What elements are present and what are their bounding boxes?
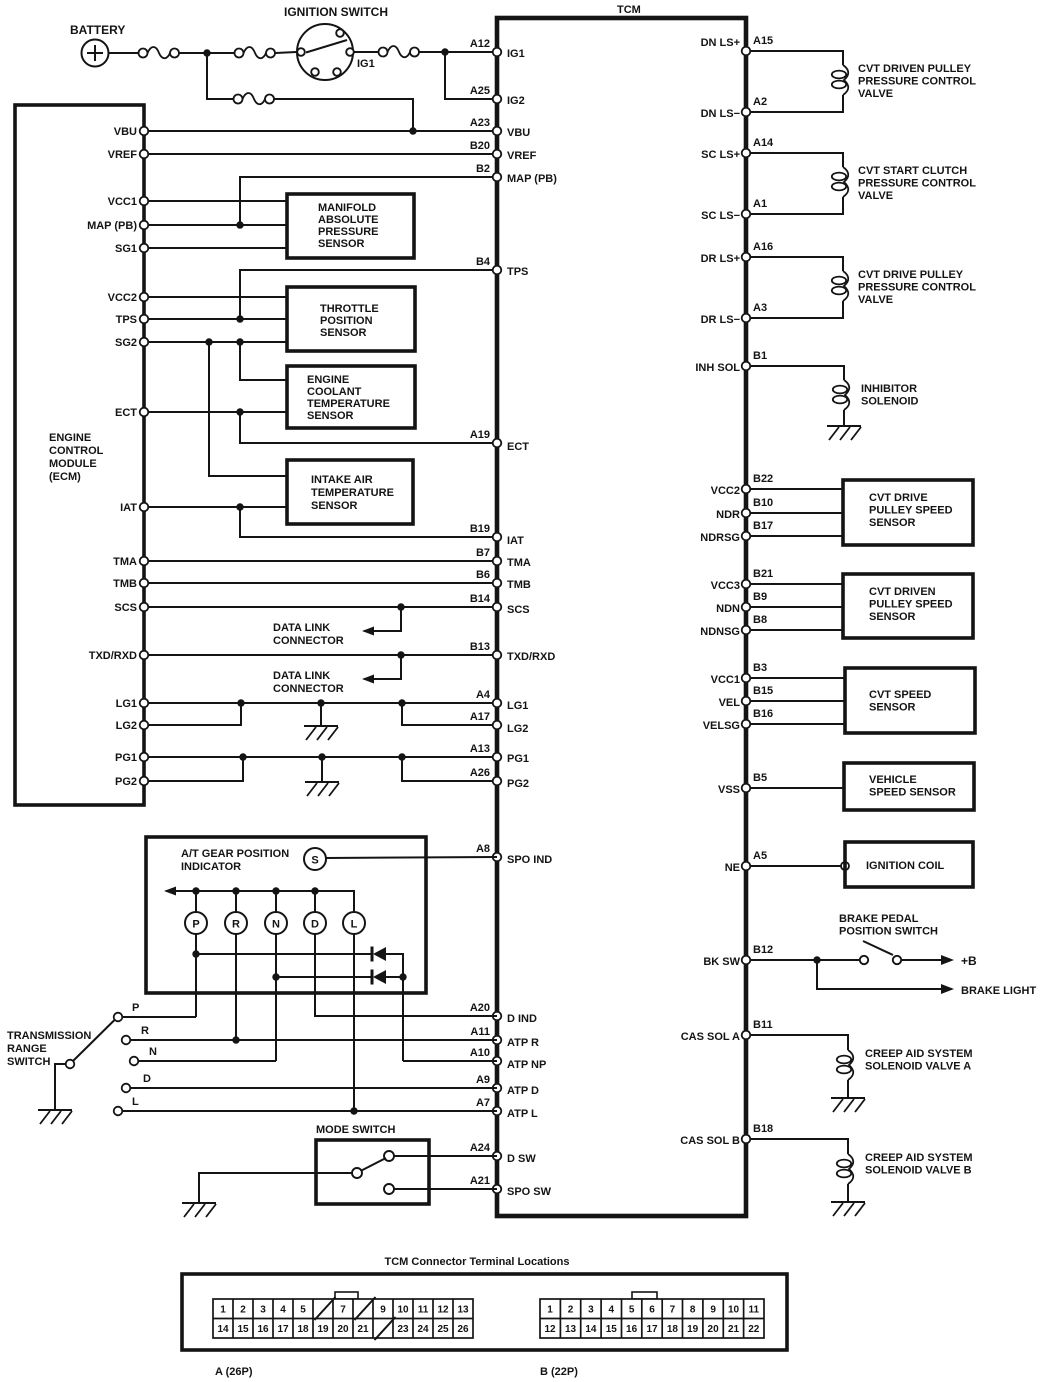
diode row 1 wire — [196, 954, 403, 1061]
wire LG1 ECM to TCM — [149, 702, 498, 704]
node bus P — [192, 887, 199, 894]
battery — [70, 23, 125, 67]
svg-text:MODE SWITCH: MODE SWITCH — [316, 1124, 395, 1136]
svg-text:B7: B7 — [476, 547, 490, 559]
ignition switch — [284, 5, 388, 80]
svg-text:A/T GEAR POSITION: A/T GEAR POSITION — [181, 848, 289, 860]
ground transmission range switch — [38, 1110, 72, 1124]
connector B pin numbers — [544, 1305, 759, 1336]
fuse F4 — [234, 93, 275, 104]
wires to CVT speed sensor — [751, 678, 846, 724]
CVT drive pulley speed sensor box — [843, 480, 973, 545]
wire junction down to fuse4 — [207, 53, 234, 99]
svg-text:B10: B10 — [753, 497, 773, 509]
TCM pin A13 PG1 — [493, 753, 502, 762]
svg-text:SENSOR: SENSOR — [307, 410, 354, 422]
brake switch lever — [863, 941, 893, 955]
svg-text:A23: A23 — [470, 117, 490, 129]
ECM pin TPS — [140, 315, 149, 324]
mode switch lever — [362, 1158, 387, 1171]
svg-text:PULLEY SPEED: PULLEY SPEED — [869, 505, 953, 517]
svg-text:B16: B16 — [753, 708, 773, 720]
ground inhibitor solenoid — [827, 426, 861, 440]
TCM pin A15 DN LS+ — [742, 47, 751, 56]
ECM pin IAT — [140, 503, 149, 512]
brake switch contact 2 — [893, 956, 901, 964]
wire VBU ECM to TCM — [149, 130, 498, 132]
range switch lever — [73, 1020, 115, 1061]
svg-text:SG1: SG1 — [115, 243, 137, 255]
TCM pin B8 NDNSG — [742, 626, 751, 635]
fuse F2 — [235, 47, 276, 58]
wire D terminal to ATP D — [131, 1087, 498, 1089]
svg-text:PRESSURE: PRESSURE — [318, 226, 379, 238]
svg-text:CONTROL: CONTROL — [49, 445, 104, 457]
svg-text:11: 11 — [418, 1305, 429, 1316]
node PG1 junction a — [239, 753, 246, 760]
svg-text:13: 13 — [565, 1324, 577, 1335]
svg-text:A8: A8 — [476, 843, 490, 855]
lamp R — [225, 912, 247, 934]
svg-text:SENSOR: SENSOR — [318, 238, 365, 250]
svg-text:10: 10 — [397, 1305, 409, 1316]
svg-text:DN LS−: DN LS− — [701, 108, 740, 120]
node P diode tap — [192, 950, 199, 957]
svg-text:ENGINE: ENGINE — [307, 374, 349, 386]
svg-text:PULLEY SPEED: PULLEY SPEED — [869, 599, 953, 611]
svg-text:VEHICLE: VEHICLE — [869, 774, 917, 786]
mode switch pivot — [352, 1168, 362, 1178]
svg-text:15: 15 — [606, 1324, 618, 1335]
TCM pin B1 INH SOL — [742, 362, 751, 371]
wire and coil creep aid system solenoid valve A — [751, 1035, 849, 1050]
svg-text:CONNECTOR: CONNECTOR — [273, 635, 344, 647]
svg-text:A24: A24 — [470, 1142, 491, 1154]
ECM pin TXD/RXD — [140, 651, 149, 660]
terminal P — [114, 1013, 123, 1022]
svg-text:D SW: D SW — [507, 1153, 536, 1165]
throttle position sensor box — [287, 287, 415, 351]
wire to brake light — [817, 960, 925, 989]
ECM pin VCC1 — [140, 197, 149, 206]
wire to ignition coil — [751, 865, 843, 867]
wire D lamp to D IND — [315, 934, 497, 1016]
svg-text:CVT DRIVEN PULLEY: CVT DRIVEN PULLEY — [858, 63, 972, 75]
svg-text:CAS SOL B: CAS SOL B — [680, 1135, 740, 1147]
svg-text:CREEP AID SYSTEM: CREEP AID SYSTEM — [865, 1152, 973, 1164]
svg-text:CVT DRIVE: CVT DRIVE — [869, 492, 928, 504]
wire fuse4 to VBU line — [275, 99, 414, 131]
svg-text:+B: +B — [961, 954, 977, 968]
wire PG2 ECM branch — [149, 757, 244, 781]
svg-text:A19: A19 — [470, 429, 490, 441]
svg-text:24: 24 — [417, 1324, 429, 1335]
svg-text:VALVE: VALVE — [858, 190, 893, 202]
svg-text:B8: B8 — [753, 614, 767, 626]
svg-text:A7: A7 — [476, 1097, 490, 1109]
ECM pin SCS — [140, 603, 149, 612]
ECM pin TMA — [140, 557, 149, 566]
TCM pin A16 DR LS+ — [742, 253, 751, 262]
svg-text:5: 5 — [300, 1305, 306, 1316]
intake air temperature sensor box — [287, 460, 413, 524]
svg-text:A21: A21 — [470, 1175, 490, 1187]
wire and coil CVT drive pulley pressure control valve — [751, 257, 844, 271]
svg-text:IAT: IAT — [120, 502, 137, 514]
svg-text:POSITION: POSITION — [320, 315, 373, 327]
svg-text:IG2: IG2 — [507, 95, 525, 107]
svg-text:INH SOL: INH SOL — [695, 362, 740, 374]
CVT speed sensor box — [845, 668, 975, 733]
svg-text:TXD/RXD: TXD/RXD — [507, 651, 555, 663]
svg-text:INDICATOR: INDICATOR — [181, 861, 241, 873]
svg-text:B15: B15 — [753, 685, 773, 697]
svg-text:3: 3 — [588, 1305, 594, 1316]
svg-text:B2: B2 — [476, 163, 490, 175]
svg-text:IAT: IAT — [507, 535, 524, 547]
wire A19 ECT branch to TCM — [240, 412, 497, 443]
svg-text:1: 1 — [220, 1305, 226, 1316]
svg-text:12: 12 — [544, 1324, 556, 1335]
wire IAT to intake air sensor — [149, 506, 288, 508]
TCM pin B20 VREF — [493, 150, 502, 159]
wire bus drop R — [235, 891, 237, 912]
svg-text:A3: A3 — [753, 302, 767, 314]
svg-text:CONNECTOR: CONNECTOR — [273, 683, 344, 695]
svg-text:19: 19 — [687, 1324, 699, 1335]
node bus D — [311, 887, 318, 894]
ground creep aid solenoid B — [831, 1202, 865, 1216]
wire B2 MAP branch to TCM — [240, 177, 497, 225]
TCM pin A26 PG2 — [493, 777, 502, 786]
wire junction to IG2 pin — [445, 52, 497, 99]
TCM pin B12 BK SW — [742, 956, 751, 965]
TCM pin B13 TXD/RXD — [493, 651, 502, 660]
node SG2 junction left — [205, 338, 212, 345]
node TXD/RXD junction — [397, 651, 404, 658]
wire SG1 to MAP sensor — [149, 247, 288, 249]
vehicle speed sensor box — [844, 763, 974, 810]
wire and coil inhibitor solenoid — [751, 366, 845, 380]
wire B19 IAT branch to TCM — [240, 507, 497, 537]
ECM pin SG1 — [140, 244, 149, 253]
TCM pin A23 VBU — [493, 127, 502, 136]
svg-text:L: L — [132, 1096, 139, 1108]
svg-text:IG1: IG1 — [357, 58, 375, 70]
node ignition coil terminal — [841, 862, 849, 870]
svg-text:2: 2 — [568, 1305, 574, 1316]
svg-text:NE: NE — [725, 862, 740, 874]
wire VREF ECM to TCM — [149, 153, 498, 155]
connector B tab — [632, 1292, 657, 1299]
node SG2 junction right — [236, 338, 243, 345]
svg-text:17: 17 — [646, 1324, 658, 1335]
svg-text:TMB: TMB — [113, 578, 137, 590]
TCM pin B5 VSS — [742, 784, 751, 793]
svg-text:VCC1: VCC1 — [711, 674, 740, 686]
wire SG2 to throttle sensor — [149, 341, 288, 343]
svg-text:9: 9 — [380, 1305, 386, 1316]
svg-text:ATP L: ATP L — [507, 1108, 538, 1120]
wire SG2 branch to coolant sensor — [240, 342, 287, 380]
svg-text:DN LS+: DN LS+ — [701, 37, 740, 49]
wire N lamp to N terminal wire — [275, 934, 277, 1061]
svg-text:SC LS−: SC LS− — [701, 210, 740, 222]
node TPS junction — [236, 315, 243, 322]
svg-text:DATA LINK: DATA LINK — [273, 622, 330, 634]
svg-text:B14: B14 — [470, 593, 491, 605]
svg-text:14: 14 — [585, 1324, 597, 1335]
wire diode chain to ATP NP — [403, 1060, 497, 1062]
wire R terminal to ATP R — [131, 1039, 498, 1041]
svg-text:CVT SPEED: CVT SPEED — [869, 689, 931, 701]
svg-text:A4: A4 — [476, 689, 491, 701]
wire to +B — [902, 959, 926, 961]
node ECT junction — [236, 408, 243, 415]
svg-text:PRESSURE CONTROL: PRESSURE CONTROL — [858, 178, 976, 190]
svg-text:A26: A26 — [470, 767, 490, 779]
TCM pin A19 ECT — [493, 439, 502, 448]
connector A blank slashes — [315, 1297, 396, 1340]
wire SCS ECM to TCM — [149, 606, 498, 608]
TCM pin B19 IAT — [493, 533, 502, 542]
svg-text:A25: A25 — [470, 85, 490, 97]
svg-text:SPO SW: SPO SW — [507, 1186, 552, 1198]
svg-text:B4: B4 — [476, 256, 491, 268]
ECM pin PG2 — [140, 777, 149, 786]
svg-text:ATP NP: ATP NP — [507, 1059, 546, 1071]
svg-text:BATTERY: BATTERY — [70, 23, 125, 37]
diode D2 — [372, 970, 386, 985]
svg-text:TXD/RXD: TXD/RXD — [89, 650, 137, 662]
wire mode switch pivot to ground — [199, 1173, 352, 1203]
wire PG2 TCM branch — [402, 757, 497, 781]
wire TMA ECM to TCM — [149, 560, 498, 562]
mode switch box — [316, 1140, 429, 1204]
node bus R — [232, 887, 239, 894]
wire and coil CVT start clutch pressure control valve — [751, 153, 844, 167]
svg-text:ENGINE: ENGINE — [49, 432, 91, 444]
svg-text:B21: B21 — [753, 568, 773, 580]
TCM pin A11 ATP R — [493, 1036, 502, 1045]
TCM pin A4 LG1 — [493, 699, 502, 708]
svg-text:L: L — [351, 919, 358, 931]
wire MAP (PB) to MAP sensor — [149, 224, 288, 226]
node diode chain junction — [399, 973, 406, 980]
TCM pin A20 D IND — [493, 1012, 502, 1021]
svg-text:4: 4 — [280, 1305, 286, 1316]
ground mode switch — [182, 1203, 216, 1217]
wire fuse2 to ignition switch — [276, 52, 297, 53]
wire VCC2 to throttle sensor — [149, 296, 288, 298]
ECM pin VCC2 — [140, 293, 149, 302]
wire mode switch to SPO SW — [394, 1188, 497, 1190]
svg-text:6: 6 — [649, 1305, 655, 1316]
connector locations outer box — [182, 1274, 787, 1350]
svg-text:MAP (PB): MAP (PB) — [507, 173, 557, 185]
svg-text:16: 16 — [626, 1324, 638, 1335]
wire VCC1 to MAP sensor — [149, 200, 288, 202]
svg-text:17: 17 — [277, 1324, 289, 1335]
wires to CVT drive pulley speed sensor — [751, 489, 844, 536]
node L junction — [350, 1107, 357, 1114]
TCM pin B21 VCC3 — [742, 580, 751, 589]
fuse F3 — [379, 46, 420, 57]
TCM pin B15 VEL — [742, 697, 751, 706]
brake switch contact 1 — [860, 956, 868, 964]
svg-text:P: P — [132, 1002, 139, 1014]
svg-text:SC LS+: SC LS+ — [701, 149, 740, 161]
arrow +B — [923, 955, 954, 965]
lamp D — [304, 912, 326, 934]
wire R lamp to ATP R — [235, 934, 237, 1040]
node MAP junction — [236, 221, 243, 228]
svg-text:21: 21 — [728, 1324, 740, 1335]
svg-text:CAS SOL A: CAS SOL A — [681, 1031, 740, 1043]
svg-text:SG2: SG2 — [115, 337, 137, 349]
svg-text:VCC2: VCC2 — [711, 485, 740, 497]
TCM pin A1 SC LS- — [742, 210, 751, 219]
svg-text:A15: A15 — [753, 35, 773, 47]
TCM pin B4 TPS — [493, 266, 502, 275]
ECM pin TMB — [140, 579, 149, 588]
svg-text:A5: A5 — [753, 850, 767, 862]
svg-text:DR LS−: DR LS− — [701, 314, 740, 326]
TCM pin A24 D SW — [493, 1152, 502, 1161]
svg-text:A11: A11 — [470, 1026, 490, 1038]
node junction on VBU wire — [409, 127, 416, 134]
connector A grid — [213, 1299, 473, 1338]
svg-text:TMA: TMA — [507, 557, 531, 569]
svg-text:SOLENOID VALVE B: SOLENOID VALVE B — [865, 1165, 972, 1177]
node LG1 junction b — [398, 699, 405, 706]
svg-text:NDR: NDR — [716, 509, 740, 521]
ECM pin VREF — [140, 150, 149, 159]
TCM pin B9 NDN — [742, 603, 751, 612]
range switch pivot — [66, 1060, 75, 1069]
svg-text:A10: A10 — [470, 1047, 490, 1059]
wire B4 TPS branch to TCM — [240, 270, 497, 319]
wire P terminal — [123, 1016, 197, 1018]
svg-text:B13: B13 — [470, 641, 490, 653]
svg-text:VCC1: VCC1 — [108, 196, 137, 208]
svg-text:B12: B12 — [753, 944, 773, 956]
arrow data link connector 2 — [362, 675, 374, 684]
svg-text:LG2: LG2 — [507, 723, 528, 735]
TCM pin B3 VCC1 — [742, 674, 751, 683]
svg-text:SPEED SENSOR: SPEED SENSOR — [869, 787, 956, 799]
node SCS junction — [397, 603, 404, 610]
ECM box (Engine Control Module) — [15, 105, 144, 805]
svg-text:B18: B18 — [753, 1123, 773, 1135]
TCM pin A8 SPO IND — [493, 853, 502, 862]
svg-text:5: 5 — [629, 1305, 635, 1316]
svg-text:SCS: SCS — [114, 602, 137, 614]
terminal D — [122, 1084, 131, 1093]
svg-text:8: 8 — [690, 1305, 696, 1316]
wire N terminal — [139, 1060, 277, 1062]
TCM pin A2 DN LS- — [742, 108, 751, 117]
svg-text:NDN: NDN — [716, 603, 740, 615]
svg-text:TEMPERATURE: TEMPERATURE — [307, 398, 390, 410]
wire bus drop N — [275, 891, 277, 912]
svg-text:B22: B22 — [753, 473, 773, 485]
TCM pin A7 ATP L — [493, 1107, 502, 1116]
TCM pin B17 NDRSG — [742, 532, 751, 541]
TCM pin B16 VELSG — [742, 720, 751, 729]
wire PG1 ECM to TCM — [149, 756, 498, 758]
wire PG ground drop — [321, 757, 323, 782]
connector A tab — [335, 1292, 358, 1299]
svg-text:D: D — [143, 1073, 151, 1085]
svg-text:B1: B1 — [753, 350, 767, 362]
svg-text:N: N — [149, 1046, 157, 1058]
terminal R — [122, 1036, 131, 1045]
wire pivot to ground — [55, 1064, 66, 1110]
svg-text:PRESSURE CONTROL: PRESSURE CONTROL — [858, 282, 976, 294]
wire LG2 TCM branch — [402, 703, 497, 725]
TCM pin A3 DR LS- — [742, 314, 751, 323]
TCM pin A12 IG1 — [493, 48, 502, 57]
svg-text:20: 20 — [708, 1324, 720, 1335]
svg-text:12: 12 — [437, 1305, 449, 1316]
svg-text:SPO IND: SPO IND — [507, 854, 552, 866]
ECM pin PG1 — [140, 753, 149, 762]
lamp N — [265, 912, 287, 934]
svg-text:ECT: ECT — [115, 407, 137, 419]
CVT driven pulley speed sensor box — [843, 574, 973, 638]
svg-text:18: 18 — [297, 1324, 309, 1335]
svg-text:PG1: PG1 — [507, 753, 529, 765]
svg-text:7: 7 — [670, 1305, 676, 1316]
svg-text:2: 2 — [240, 1305, 246, 1316]
TCM pin B6 TMB — [493, 579, 502, 588]
svg-text:TPS: TPS — [507, 266, 528, 278]
svg-text:26: 26 — [457, 1324, 469, 1335]
svg-text:1: 1 — [547, 1305, 553, 1316]
TCM pin B11 CAS SOL A — [742, 1031, 751, 1040]
wire and coil creep aid system solenoid valve B — [751, 1139, 849, 1154]
svg-text:LG2: LG2 — [116, 720, 137, 732]
TCM pin B7 TMA — [493, 557, 502, 566]
wire ECT to coolant sensor — [149, 411, 288, 413]
svg-text:3: 3 — [260, 1305, 266, 1316]
svg-text:R: R — [232, 919, 240, 931]
svg-text:TMB: TMB — [507, 579, 531, 591]
svg-text:B20: B20 — [470, 140, 490, 152]
svg-text:(ECM): (ECM) — [49, 471, 81, 483]
svg-text:PG2: PG2 — [115, 776, 137, 788]
svg-text:IGNITION COIL: IGNITION COIL — [866, 860, 945, 872]
svg-text:VREF: VREF — [108, 149, 138, 161]
svg-text:POSITION SWITCH: POSITION SWITCH — [839, 926, 938, 938]
TCM pin A14 SC LS+ — [742, 149, 751, 158]
svg-text:TCM: TCM — [617, 4, 641, 16]
TCM pin B18 CAS SOL B — [742, 1135, 751, 1144]
svg-text:21: 21 — [357, 1324, 369, 1335]
wire SCS branch to data link connector — [364, 607, 401, 631]
svg-text:DATA LINK: DATA LINK — [273, 670, 330, 682]
svg-text:RANGE: RANGE — [7, 1043, 47, 1055]
wire ignition switch to fuse3 — [354, 51, 379, 53]
svg-text:20: 20 — [337, 1324, 349, 1335]
svg-text:ABSOLUTE: ABSOLUTE — [318, 214, 379, 226]
svg-text:THROTTLE: THROTTLE — [320, 303, 379, 315]
svg-text:INTAKE AIR: INTAKE AIR — [311, 474, 373, 486]
svg-text:A14: A14 — [753, 137, 774, 149]
svg-text:B9: B9 — [753, 591, 767, 603]
wire TXD/RXD branch to data link connector — [364, 655, 401, 679]
